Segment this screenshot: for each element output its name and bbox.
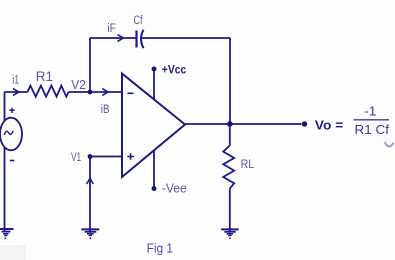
arrow iF <box>118 35 124 42</box>
arrow i1 <box>13 89 19 96</box>
wire left vertical bottom (source bottom lead) <box>4 148 6 233</box>
node V1 (junction dot) <box>88 154 93 159</box>
wire: V1 node to non-inverting input <box>90 156 122 158</box>
svg-text:Cf: Cf <box>133 15 143 27</box>
wire -Vee lead <box>153 151 155 189</box>
wire: V1 down to ground <box>89 157 91 232</box>
svg-text:-Vee: -Vee <box>162 182 187 196</box>
ground (below V1) <box>81 229 99 239</box>
arrow iB <box>102 89 108 96</box>
op-amp plus sign <box>127 153 134 160</box>
svg-text:RL: RL <box>241 157 255 171</box>
ground (below RL) <box>221 229 238 239</box>
svg-text:iF: iF <box>107 23 116 35</box>
wire: V2 node up to feedback branch <box>89 38 91 92</box>
svg-text:R1 Cf: R1 Cf <box>355 122 390 137</box>
svg-text:Fig 1: Fig 1 <box>147 240 173 255</box>
svg-text:i1: i1 <box>12 74 19 86</box>
svg-text:-1: -1 <box>364 105 377 119</box>
wire: output node down to RL <box>229 124 231 146</box>
wire: top feedback run to capacitor <box>90 37 136 39</box>
wire left vertical top (source top lead) <box>4 92 6 121</box>
resistor RL <box>223 146 234 189</box>
resistor R1 <box>28 86 69 97</box>
voltage source sine symbol <box>4 131 13 135</box>
wire: source corner to R1 <box>5 91 28 93</box>
node output terminal dot <box>302 121 307 126</box>
wire: op-amp output to terminal <box>185 123 302 125</box>
op-amp minus sign <box>128 92 134 94</box>
svg-text:+Vcc: +Vcc <box>162 62 187 76</box>
op-amp U1 <box>122 74 185 178</box>
voltage source VS <box>0 118 22 151</box>
svg-text:V1: V1 <box>71 150 81 164</box>
annotation light blue arc <box>385 142 394 147</box>
voltage source plus sign <box>9 108 14 113</box>
wire: R1 to V2 node to op-amp inverting input <box>69 91 122 93</box>
capacitor Cf <box>137 30 144 48</box>
wire: RL to ground <box>229 189 231 231</box>
wire: capacitor to right vertical <box>141 37 230 39</box>
svg-text:Vo =: Vo = <box>315 118 344 133</box>
svg-text:V2: V2 <box>71 78 86 92</box>
wire: right vertical down to output node <box>229 38 231 124</box>
node output junction dot <box>227 121 233 127</box>
node V2 (junction dot) <box>88 90 93 95</box>
faint scan patch bottom-left <box>0 245 26 260</box>
arrow V1 up <box>87 178 94 184</box>
formula fraction bar <box>354 119 390 121</box>
voltage source minus sign <box>10 160 15 162</box>
node -Vee terminal dot <box>152 186 157 191</box>
svg-text:R1: R1 <box>36 69 53 84</box>
svg-text:iB: iB <box>101 104 110 116</box>
ground (left, below source) <box>0 229 14 239</box>
wire +Vcc lead <box>153 69 155 99</box>
node +Vcc terminal dot <box>152 67 157 72</box>
